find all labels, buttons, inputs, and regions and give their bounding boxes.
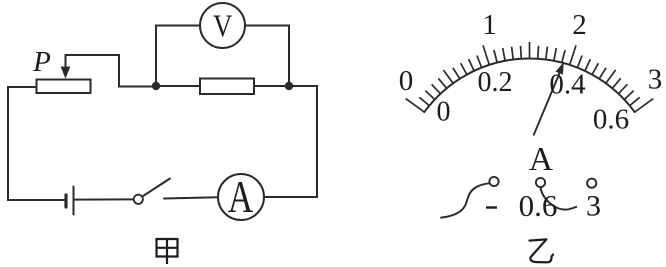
switch S1 pivot circle	[134, 195, 143, 204]
wire into minus terminal	[440, 183, 489, 218]
wire into 0.6 terminal	[541, 187, 578, 209]
wire left-side loop (left vertical + bottom to battery)	[8, 87, 64, 200]
node A junction dot	[152, 82, 160, 90]
potentiometer P wiper arrowhead	[61, 67, 71, 79]
svg-text:1: 1	[482, 9, 497, 41]
ammeter A1 circle	[218, 174, 264, 220]
wire wiper to node A	[66, 55, 157, 87]
wire node A to resistor R1	[156, 85, 200, 87]
battery B1 (long positive plate)	[73, 187, 75, 215]
wire resistor R1 to node B	[254, 85, 289, 87]
battery B1 (short negative plate)	[64, 195, 67, 207]
svg-text:0.6: 0.6	[519, 188, 558, 223]
svg-text:0.4: 0.4	[549, 69, 586, 101]
needle arrowhead	[556, 62, 564, 75]
svg-text:0: 0	[399, 65, 414, 97]
potentiometer P body	[37, 80, 91, 94]
svg-text:3: 3	[648, 64, 663, 96]
needle of meter	[534, 73, 560, 136]
switch S1 lever	[142, 179, 170, 197]
svg-text:0.6: 0.6	[593, 104, 629, 136]
svg-text:V: V	[213, 10, 232, 44]
svg-text:A: A	[529, 141, 553, 178]
wire node A up to voltmeter	[156, 26, 200, 87]
wire voltmeter to node B	[246, 26, 290, 87]
svg-text:0: 0	[437, 97, 451, 128]
svg-text:2: 2	[572, 9, 587, 41]
resistor R1 body	[200, 79, 254, 95]
svg-text:A: A	[228, 172, 253, 222]
potentiometer P wiper arrow shaft	[65, 55, 67, 71]
svg-text:0.2: 0.2	[478, 67, 513, 98]
node B junction dot	[285, 82, 293, 90]
wire switch to ammeter	[164, 197, 218, 198]
meter scale arc	[424, 58, 634, 112]
label minus sign	[486, 206, 497, 208]
wire ammeter to right vertical up to node B	[264, 86, 317, 197]
voltmeter V1 circle	[200, 3, 245, 48]
label jia (caption of left figure)	[157, 239, 178, 264]
terminal minus circle	[489, 177, 498, 186]
meter tick marks	[406, 42, 654, 112]
svg-text:P: P	[32, 46, 51, 78]
wire battery to switch	[75, 198, 133, 200]
svg-text:3: 3	[586, 190, 601, 223]
label yi (caption of right figure)	[530, 239, 554, 262]
terminal 3 circle	[587, 179, 596, 188]
terminal 0.6 circle	[536, 178, 545, 187]
